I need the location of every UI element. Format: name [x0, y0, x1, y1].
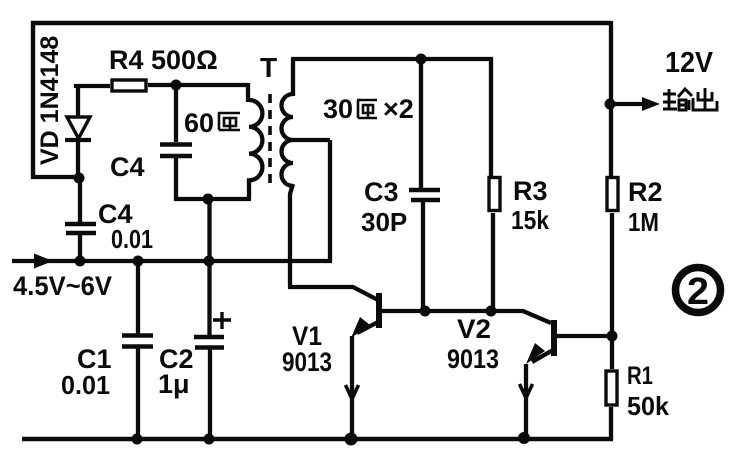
node junction C2 supply [204, 256, 215, 267]
svg-text:30: 30 [323, 94, 353, 124]
node junction C3 top [416, 54, 427, 65]
label shu glyph output [663, 89, 693, 110]
capacitor C2 plus sign [213, 312, 231, 329]
transistor V2 emitter lead [526, 350, 553, 435]
node junction R4/tank top [171, 80, 182, 91]
wire R4 right lead to tank top [148, 83, 248, 87]
arrow V1 emitter vertical [346, 385, 359, 399]
node junction C3 bottom [420, 306, 431, 317]
resistor R4 body [112, 80, 146, 91]
svg-text:50k: 50k [627, 391, 670, 421]
arrow V1 emitter [351, 317, 370, 338]
svg-text:2: 2 [687, 271, 709, 313]
wire top 12V rail [31, 21, 611, 26]
wire transformer center tap [293, 140, 330, 261]
wire diode cathode vertical [76, 141, 80, 177]
svg-text:60: 60 [184, 108, 214, 138]
wire R2 bottom lead [610, 213, 614, 336]
inductor 30x2 turns secondary winding [282, 94, 294, 186]
node junction C4 supply [75, 256, 86, 267]
wire diode cathode horizontal [31, 175, 78, 179]
wire R3 top lead [489, 57, 493, 176]
svg-text:R2: R2 [628, 177, 663, 207]
arrow supply input [34, 254, 53, 269]
node junction R3 bottom [486, 306, 497, 317]
svg-text:C4: C4 [110, 152, 145, 182]
capacitor C1 plates [122, 336, 153, 347]
wire 4.5V supply line [12, 259, 332, 263]
capacitor C4 decoupling plates [65, 224, 96, 233]
capacitor C2 top lead [207, 199, 211, 337]
svg-text:0.01: 0.01 [61, 370, 110, 400]
svg-text:15k: 15k [511, 205, 549, 235]
node junction tank bottom [203, 194, 214, 205]
transistor V2 base bar [551, 320, 557, 356]
svg-text:0.01: 0.01 [111, 224, 153, 254]
wire tank bottom horizontal [174, 197, 251, 201]
wire output tap [610, 102, 643, 106]
arrow output [642, 97, 660, 111]
svg-text:×2: ×2 [383, 94, 414, 124]
wire ground rail [22, 437, 613, 442]
resistor R2 body [607, 178, 618, 211]
transformer T core dashed line [268, 94, 272, 190]
capacitor C1 bottom lead [136, 347, 140, 438]
wire R4 left lead [76, 84, 110, 88]
node junction diode cathode [74, 173, 85, 184]
node junction C2 ground [204, 434, 215, 445]
wire R3 bottom lead [491, 213, 495, 311]
wire secondary top rail to R3 [291, 57, 493, 61]
node junction V2 collector R2 R1 [607, 331, 618, 342]
node junction C1 supply [133, 256, 144, 267]
capacitor C4 decoupling bottom lead [78, 233, 82, 261]
wire left border down to diode net [31, 21, 35, 179]
svg-text:9013: 9013 [447, 344, 499, 374]
node junction 12V output [605, 99, 616, 110]
svg-text:R1: R1 [627, 362, 653, 390]
node junction C1 ground [132, 434, 143, 445]
label zha glyph 30 turns [357, 100, 377, 118]
wire secondary top lead [291, 59, 295, 96]
svg-text:9013: 9013 [282, 347, 332, 377]
wire diode anode [76, 86, 80, 117]
wire tank top corner down [246, 83, 250, 102]
svg-text:1M: 1M [628, 207, 659, 237]
svg-text:VD 1N4148: VD 1N4148 [36, 36, 64, 165]
wire R1 top lead [610, 336, 614, 369]
svg-text:1μ: 1μ [158, 369, 190, 399]
node junction V2 emitter ground [518, 432, 530, 444]
transistor V1 emitter lead [352, 322, 378, 438]
resistor R1 body [606, 371, 617, 405]
figure number circled 2 [676, 268, 721, 314]
svg-text:T: T [260, 52, 277, 83]
wire V1 collector line [379, 311, 551, 323]
svg-text:R3: R3 [513, 176, 548, 206]
capacitor C3 plates [409, 190, 440, 200]
svg-text:R4 500Ω: R4 500Ω [109, 45, 218, 75]
svg-text:C3: C3 [364, 177, 399, 207]
capacitor C2 bottom lead [208, 348, 212, 438]
wire R1 bottom lead [609, 407, 613, 440]
wire secondary bottom lead down to V1 base [288, 184, 378, 300]
capacitor C1 top lead [136, 261, 140, 334]
capacitor C4 tank bottom lead [174, 156, 178, 201]
capacitor C3 bottom lead [421, 200, 425, 311]
arrow V2 emitter vertical [520, 384, 533, 398]
wire right 12V vertical rail [609, 21, 613, 176]
transistor V1 base bar [376, 293, 382, 328]
capacitor C3 top lead [419, 59, 423, 188]
resistor R3 body [489, 178, 500, 211]
svg-text:30P: 30P [361, 207, 407, 237]
node junction V1 emitter ground [345, 433, 358, 446]
diode VD triangle [67, 117, 90, 139]
arrow V2 emitter [526, 343, 545, 364]
capacitor C2 plates [194, 337, 224, 348]
capacitor C4 tank plates [160, 145, 192, 157]
wire V2 collector lead [556, 334, 613, 338]
svg-text:4.5V~6V: 4.5V~6V [13, 271, 112, 301]
label chu glyph output [693, 88, 717, 110]
label zha glyph 60 turns [218, 113, 240, 130]
diode VD cathode bar [65, 138, 91, 142]
svg-text:V2: V2 [457, 314, 491, 344]
capacitor C4 tank top lead [174, 83, 178, 142]
capacitor C4 decoupling top lead [78, 178, 82, 224]
svg-text:12V: 12V [665, 47, 714, 79]
inductor 60 turns primary winding [249, 100, 262, 199]
